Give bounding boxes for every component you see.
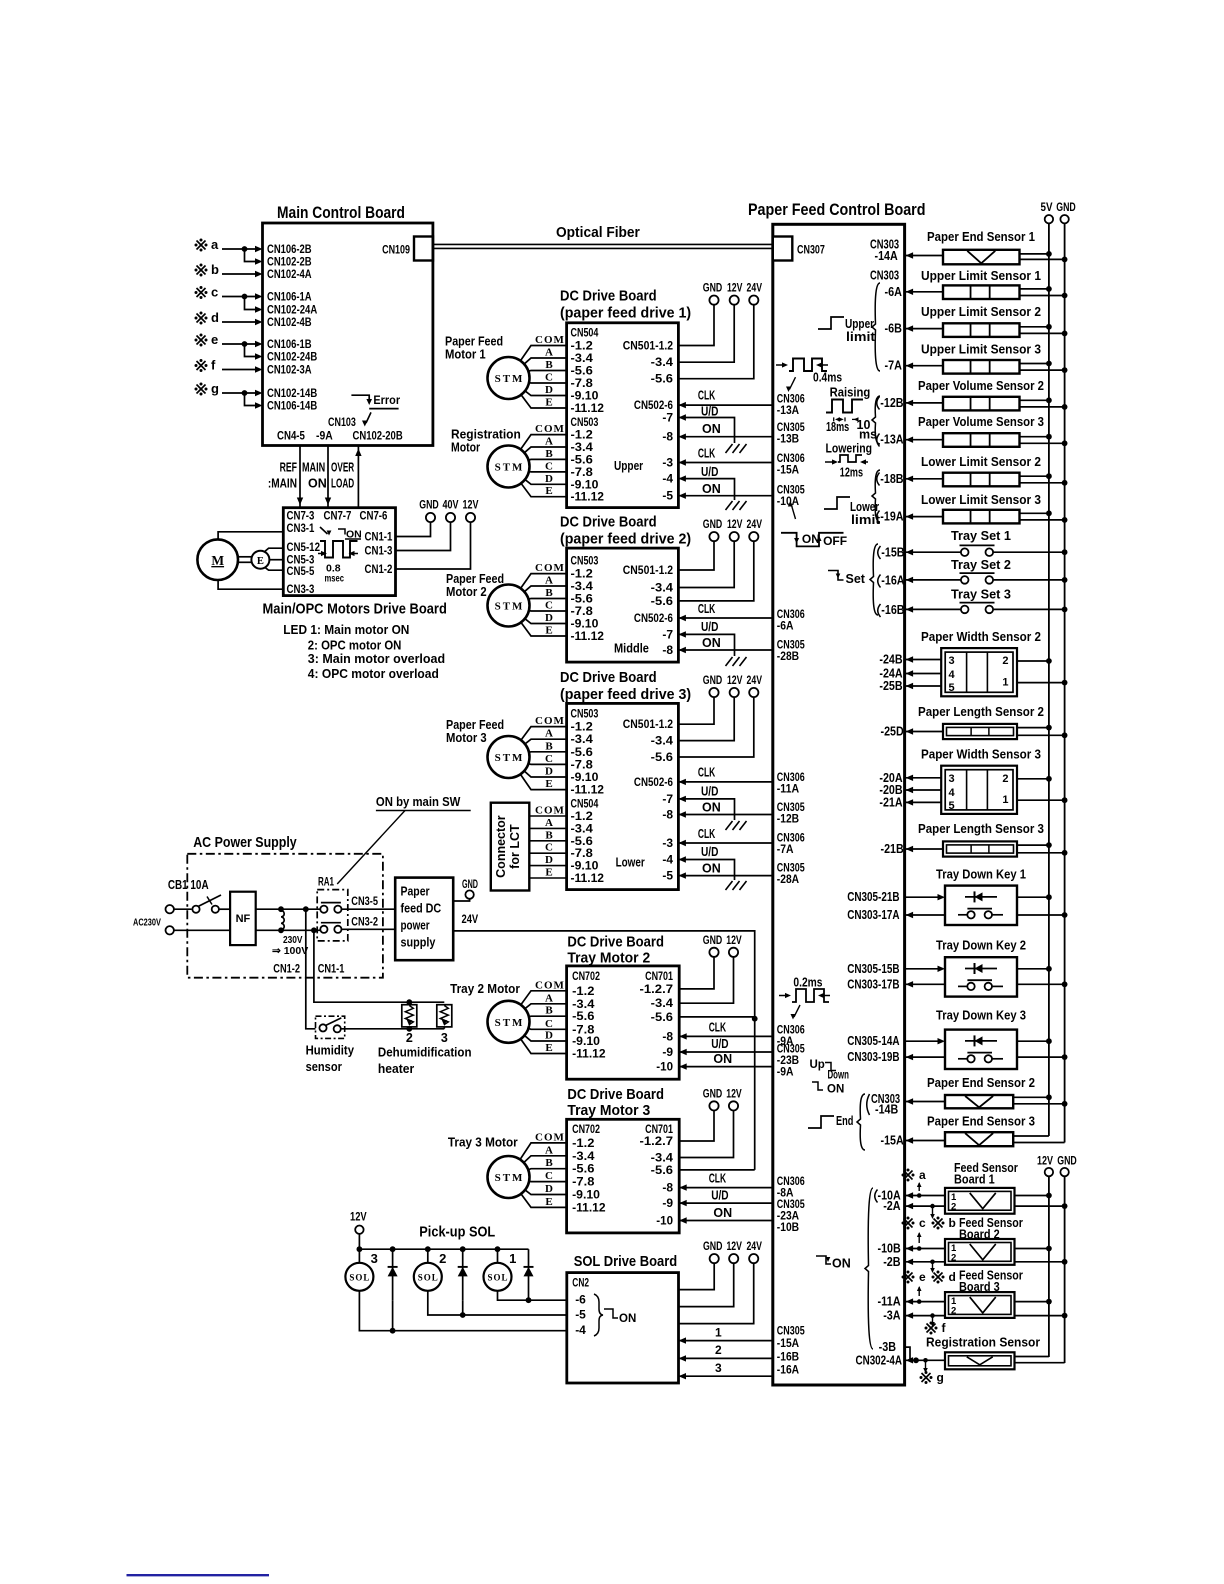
wire CN5-3 to E — [269, 559, 283, 561]
connector CN307 — [773, 237, 825, 261]
net label CN306 at y462 — [777, 451, 805, 465]
brace tray set group — [870, 544, 878, 615]
sensor registration sensor — [945, 1352, 1015, 1369]
svg-text:Pick-up SOL: Pick-up SOL — [419, 1224, 495, 1241]
svg-text:12V: 12V — [1037, 1155, 1053, 1167]
pin label -24A y677.5 — [879, 667, 902, 681]
svg-text:(paper feed drive 1): (paper feed drive 1) — [560, 305, 691, 322]
label paper feed motor 1 — [445, 335, 503, 362]
wire tdk1 in — [905, 894, 945, 900]
rail GND feed — [1064, 1176, 1066, 1363]
svg-text:M: M — [211, 553, 224, 568]
solenoid SOL2 — [414, 1249, 447, 1291]
svg-text:(paper feed drive 3): (paper feed drive 3) — [560, 686, 691, 703]
svg-text:12V: 12V — [350, 1210, 367, 1224]
label GND 40V 12V — [419, 500, 479, 512]
sensor paper end sensor 1 — [943, 250, 1020, 264]
wire tdk1 out — [906, 912, 945, 918]
pin label b3 CN503-1.2 — [571, 720, 594, 734]
diode D2 — [458, 1249, 468, 1300]
svg-text:C: C — [545, 460, 553, 472]
pin label -18B y482.8 — [880, 472, 903, 486]
pin label CN701-1.2.7 t3 — [640, 1134, 674, 1148]
wire REF:MAIN — [297, 446, 303, 508]
svg-text:D: D — [545, 766, 553, 778]
svg-text:-3.4: -3.4 — [572, 1149, 595, 1163]
svg-text:CN102-20B: CN102-20B — [353, 429, 403, 443]
wire b2 CN501-5.6 to 24V — [678, 541, 753, 601]
net label -7A at y852.9 — [777, 842, 794, 856]
pin label -24B y663.5 — [879, 653, 902, 667]
pin label -20B y794 — [879, 783, 902, 797]
switch tray set 3 — [960, 603, 995, 614]
wire STM4 fan — [509, 727, 567, 790]
wire CLK CN306-6A — [678, 602, 772, 621]
pin label -7A y369.7 — [885, 359, 902, 373]
connector for LCT label — [494, 815, 522, 878]
wire reg right — [1015, 1357, 1065, 1363]
svg-text:Main Control Board: Main Control Board — [277, 203, 405, 222]
pin label -25D y735.5 — [881, 725, 904, 739]
pin label b2 CN503-9.10 — [571, 617, 599, 631]
junction d1 bottom — [526, 1297, 532, 1303]
motor STM4 paper feed motor 3 — [488, 715, 565, 790]
sensor title tray down key 1 — [936, 868, 1026, 882]
svg-text:-3.4: -3.4 — [651, 581, 674, 595]
wire humidity to heater — [341, 1028, 445, 1030]
svg-text:Paper Volume Sensor 3: Paper Volume Sensor 3 — [918, 415, 1044, 429]
svg-text:STM: STM — [495, 1172, 525, 1184]
pin label t3 CN702-11.12 — [572, 1200, 606, 1214]
svg-text:Board 1: Board 1 — [954, 1173, 995, 1187]
wire fsb2 -2B — [906, 1259, 945, 1265]
pin label CN701-9 t3 — [662, 1196, 673, 1210]
svg-text:E: E — [257, 556, 264, 567]
pin label CN5-5 — [287, 564, 315, 578]
svg-text:-1.2.7: -1.2.7 — [640, 1134, 674, 1148]
svg-text:-6A: -6A — [885, 285, 902, 299]
svg-text:CN106-1A: CN106-1A — [267, 290, 312, 304]
svg-text:DC Drive Board: DC Drive Board — [560, 288, 657, 305]
wire sol1 bottom — [498, 1291, 567, 1300]
svg-text:SOL: SOL — [487, 1272, 508, 1282]
wire heater2 bottom — [406, 1026, 412, 1032]
pin label CN504-1.2 — [571, 339, 594, 353]
sensor title paper length sensor 3 — [918, 822, 1044, 836]
svg-text:CN303-17A: CN303-17A — [847, 908, 899, 922]
pin label b3 CN503-9.10 — [571, 770, 599, 784]
pin label CN103-9A — [316, 429, 333, 443]
svg-text:d: d — [949, 1270, 956, 1284]
wire uls1 left — [906, 289, 943, 295]
junction sol3 top — [357, 1246, 363, 1252]
svg-text:ON: ON — [702, 482, 721, 496]
pin label CN701-3.4 t3 — [651, 1151, 674, 1165]
switch tray set 2 — [960, 573, 995, 584]
wire sol2 bottom — [428, 1291, 567, 1315]
svg-text:heater: heater — [378, 1061, 414, 1076]
wire CN5-5 to E — [263, 566, 283, 570]
label 12V sol — [350, 1210, 367, 1224]
svg-text:-9A: -9A — [777, 1064, 794, 1078]
pin label t2 CN702-3.4 — [572, 997, 595, 1011]
svg-text:GND: GND — [703, 519, 723, 531]
sensor lower limit sensor 2 — [943, 473, 1020, 487]
pin label -19A y520.6 — [880, 510, 903, 524]
svg-text:COM: COM — [535, 715, 565, 727]
svg-text:-8: -8 — [662, 1029, 673, 1043]
sensor title tray set 2 — [951, 558, 1011, 572]
svg-text:Tray Motor 3: Tray Motor 3 — [567, 1102, 650, 1119]
wire ON t2 — [679, 1052, 773, 1070]
terminal AC line — [166, 905, 174, 913]
svg-text:1: 1 — [1002, 677, 1008, 689]
wire STM2 fan — [509, 435, 567, 497]
svg-text:-18B: -18B — [880, 472, 903, 486]
wire sol 12V bus — [359, 1234, 528, 1249]
wire pws2 pin4 — [906, 670, 942, 676]
svg-text:-11.12: -11.12 — [572, 1200, 606, 1214]
svg-text:OVER: OVER — [331, 461, 354, 475]
svg-text:Upper: Upper — [845, 317, 874, 331]
svg-text:GND: GND — [703, 1088, 723, 1100]
svg-text:-5.6: -5.6 — [651, 1010, 674, 1024]
junction CN1-1 tap — [311, 927, 317, 933]
svg-text:4: OPC motor overload: 4: OPC motor overload — [308, 666, 439, 681]
sensor title paper length sensor 2 — [918, 705, 1044, 719]
svg-text:D: D — [545, 612, 553, 624]
svg-text:12V: 12V — [727, 519, 743, 531]
ground b3b — [726, 881, 747, 890]
svg-text:COM: COM — [535, 334, 565, 346]
wire fsb1 -2A — [906, 1203, 945, 1209]
key tray down key 1 — [945, 886, 1017, 925]
dc drive board tray motor 2 title — [567, 934, 664, 967]
wire CN1-3 to 40V — [396, 522, 451, 550]
pin label CN303 y1102.8 — [871, 1092, 900, 1106]
waveform end — [808, 1114, 853, 1128]
svg-text:-5.6: -5.6 — [651, 1163, 674, 1177]
sensor title feed sensor board 1 — [954, 1161, 1018, 1187]
wire node c to pins — [222, 293, 263, 312]
svg-text:D: D — [545, 854, 553, 866]
wire uls3 right — [1020, 361, 1068, 373]
svg-text:-5.6: -5.6 — [651, 372, 674, 386]
svg-text:SOL: SOL — [349, 1272, 370, 1282]
net label -9A at y1044.9 — [777, 1034, 794, 1048]
pin label CN103 — [328, 415, 356, 429]
wire fsb2 right — [1015, 1246, 1068, 1265]
net label -23B at y1063.9 — [777, 1053, 800, 1067]
pin label -2B y1265.8 — [883, 1255, 900, 1269]
wire U/D CN305-23A — [679, 1188, 773, 1206]
wire STM5 fan — [509, 991, 567, 1054]
svg-text:ON: ON — [832, 1257, 851, 1271]
svg-text:CN307: CN307 — [797, 243, 825, 257]
svg-text:U/D: U/D — [711, 1188, 728, 1202]
svg-text:CN502-6: CN502-6 — [634, 775, 673, 789]
pin label CN303 y248.4 — [870, 237, 899, 251]
wire tdk2 in — [905, 966, 945, 972]
svg-text:B: B — [545, 740, 553, 752]
svg-text:CN503: CN503 — [571, 707, 599, 721]
svg-text:24V: 24V — [462, 912, 479, 926]
sensor title lower limit sensor 3 — [921, 493, 1041, 507]
pin label -13A y443.7 — [880, 433, 903, 447]
sensor feed sensor board 3 — [945, 1292, 1015, 1318]
svg-text::MAIN: :MAIN — [268, 477, 297, 491]
terminals GND 12V 24V board2 — [703, 519, 763, 541]
brace CN2 pins — [594, 1294, 603, 1336]
svg-text:E: E — [545, 397, 552, 409]
svg-text:A: A — [545, 728, 553, 740]
pin label -2A y1210.1 — [883, 1199, 900, 1213]
sensor title upper limit sensor 3 — [921, 343, 1041, 357]
wire pws2 pin1 right — [1017, 680, 1068, 686]
pin label b2 CN503-1.2 — [571, 567, 594, 581]
svg-text:D: D — [545, 473, 553, 485]
paren -15B — [878, 546, 881, 559]
wire pvs3 right — [1020, 434, 1068, 446]
pin label CN702 t3 — [572, 1122, 600, 1136]
wire tdk3 out — [906, 1054, 945, 1060]
wire b2 CN501-3.4 to 12V — [678, 541, 734, 587]
wire pws3 pin2 right — [1017, 776, 1052, 782]
pin label CN503-5.6 — [571, 452, 594, 466]
wire tdk3 in — [905, 1038, 945, 1044]
sensor paper end sensor 3 — [945, 1132, 1013, 1146]
svg-text:CN502-6: CN502-6 — [634, 611, 673, 625]
net label -15A at y473.4 — [777, 462, 800, 476]
diode D1 — [524, 1249, 534, 1300]
svg-text:-13A: -13A — [777, 403, 800, 417]
svg-text:A: A — [545, 436, 553, 448]
svg-text:-16B: -16B — [777, 1349, 800, 1363]
wire pls2 right — [1017, 725, 1068, 739]
wire AC neutral to NF — [174, 929, 230, 931]
svg-text:Upper Limit Sensor 3: Upper Limit Sensor 3 — [921, 343, 1041, 357]
humidity sensor contacts — [319, 1018, 341, 1033]
net label -23A at y1219.4 — [777, 1208, 800, 1222]
svg-text:Motor: Motor — [451, 441, 480, 455]
sensor paper width sensor 3 — [941, 766, 1017, 814]
wire ts1 left — [906, 549, 961, 555]
pin label b2 CN503-7.8 — [571, 604, 594, 618]
label Lower — [616, 856, 645, 870]
svg-text:-3.4: -3.4 — [651, 355, 674, 369]
svg-text:Registration Sensor: Registration Sensor — [926, 1335, 1040, 1349]
paren -16B — [878, 604, 881, 617]
svg-text:CN102-3A: CN102-3A — [267, 363, 312, 377]
wire t2 CN701-1.2.7 to GND — [679, 957, 714, 989]
junction d2 top — [460, 1246, 466, 1252]
svg-text:12V: 12V — [463, 500, 479, 512]
switch tray set 1 — [960, 545, 995, 556]
wire t2 CN701-5.6 to 24V — [679, 1017, 755, 1019]
svg-text:LED 1: Main motor ON: LED 1: Main motor ON — [283, 622, 409, 637]
sensor title paper width sensor 2 — [921, 630, 1041, 644]
motor STM3 paper feed motor 2 — [488, 562, 565, 636]
svg-text:GND: GND — [703, 1241, 723, 1253]
svg-text:e: e — [919, 1270, 926, 1284]
pin label -21B y853 — [881, 842, 904, 856]
svg-text:-11.12: -11.12 — [571, 401, 605, 415]
svg-text:CN102-24B: CN102-24B — [267, 350, 317, 364]
wire b3 CN501-1.2 to GND — [678, 697, 714, 724]
svg-text:CN3-5: CN3-5 — [351, 896, 378, 908]
wire lls3 right — [1020, 510, 1068, 522]
pin label CN701-9 t2 — [662, 1045, 673, 1059]
pin label CN106-1A — [267, 290, 312, 304]
pin label CN501-5.6 b3 — [651, 750, 674, 764]
waveform on feed — [816, 1256, 851, 1271]
sensor title feed sensor board 2 — [959, 1216, 1023, 1241]
pin label b3 CN504-11.12 — [571, 871, 605, 885]
wire node b to pin — [222, 271, 263, 277]
net label CN305 at y871.5 — [777, 861, 805, 875]
pin label CN501-1.2 — [623, 339, 673, 353]
svg-text:CN7-7: CN7-7 — [324, 509, 352, 523]
svg-text:COM: COM — [535, 979, 565, 991]
pin label CN305-14A y1045.2 — [847, 1034, 899, 1048]
svg-text:CN303: CN303 — [870, 269, 899, 283]
svg-text:CN102-4A: CN102-4A — [267, 267, 312, 281]
svg-text:Paper Length Sensor 2: Paper Length Sensor 2 — [918, 705, 1044, 719]
net label CN306 at y781 — [777, 770, 805, 784]
svg-text:Paper End Sensor 3: Paper End Sensor 3 — [927, 1115, 1035, 1129]
svg-text:REF: REF — [280, 461, 298, 475]
label 24V — [462, 912, 479, 926]
junction d3 bottom — [390, 1300, 396, 1333]
wire OVERLOAD — [355, 446, 361, 508]
svg-text:-11.12: -11.12 — [571, 871, 605, 885]
terminal AC neutral — [166, 926, 174, 934]
pin label CN502-8 b3 — [662, 808, 673, 822]
wire pws2 pin3 — [906, 656, 942, 662]
pin label CN502-3 — [662, 456, 673, 470]
ground b2 — [726, 657, 747, 666]
pin label -10A y1199.5 — [878, 1189, 901, 1203]
wire ts2 right — [993, 577, 1067, 583]
arrow 0.2ms callout — [791, 1005, 801, 1020]
pin label CN102-4B — [267, 315, 312, 329]
pin label -15A y1144.5 — [881, 1134, 904, 1148]
svg-text:3: 3 — [949, 773, 955, 785]
brace raising group — [872, 396, 880, 444]
diode D3 — [388, 1249, 398, 1300]
svg-text:g: g — [211, 381, 219, 396]
sensor title upper limit sensor 1 — [921, 269, 1041, 283]
svg-text:C: C — [545, 1170, 553, 1182]
terminal 5V — [1045, 215, 1053, 223]
label paper feed motor 3 — [446, 718, 504, 745]
svg-text:-10A: -10A — [777, 494, 800, 508]
svg-text:Paper Feed: Paper Feed — [445, 335, 503, 349]
wire ts1 right — [993, 549, 1067, 555]
pin label CN502-7 b3 — [662, 792, 673, 806]
pin label CN501-3.4 b3 — [651, 734, 674, 748]
pin label CN701 t3 — [645, 1122, 673, 1136]
svg-text:Paper Width Sensor 2: Paper Width Sensor 2 — [921, 630, 1041, 644]
breaker CB1 — [192, 895, 221, 913]
svg-text:CN501-1.2: CN501-1.2 — [623, 717, 673, 731]
svg-text:STM: STM — [495, 1017, 525, 1029]
wire pls2 left — [906, 728, 943, 734]
svg-text:ON: ON — [702, 422, 721, 436]
label humidity sensor — [306, 1043, 355, 1075]
net label -10A at y504.9 — [777, 494, 800, 508]
pin label b3 CN504-3.4 — [571, 821, 594, 835]
wire node a to pins — [222, 246, 263, 265]
sensor title feed sensor board 3 — [959, 1269, 1023, 1294]
svg-text:CN106-14B: CN106-14B — [267, 399, 317, 413]
svg-text:-10: -10 — [656, 1060, 673, 1074]
svg-text:CN501-1.2: CN501-1.2 — [623, 563, 673, 577]
svg-text:E: E — [545, 625, 552, 637]
label REF :MAIN — [268, 461, 297, 491]
wire uls3 left — [906, 363, 943, 369]
svg-text:DC Drive Board: DC Drive Board — [560, 669, 657, 686]
svg-text:E: E — [545, 1196, 552, 1208]
svg-text:limit: limit — [846, 330, 876, 344]
pin label CN701-5.6 t2 — [651, 1010, 674, 1024]
svg-text:2: 2 — [406, 1031, 413, 1045]
pin label CN504 b3 — [571, 797, 599, 811]
wire NF to RA1 bottom — [256, 929, 321, 931]
svg-text:-21A: -21A — [879, 795, 902, 809]
node a reference mark — [195, 237, 220, 252]
svg-text:Motor 1: Motor 1 — [445, 348, 486, 362]
svg-text:-8: -8 — [662, 430, 673, 444]
pin label CN502-7 b2 — [662, 627, 673, 641]
svg-text:Tray Set 1: Tray Set 1 — [951, 529, 1011, 543]
wire node e to pins — [222, 341, 263, 360]
pin label b3 CN503-5.6 — [571, 745, 594, 759]
svg-text:g: g — [937, 1371, 944, 1385]
svg-text:Paper Width Sensor 3: Paper Width Sensor 3 — [921, 748, 1041, 762]
svg-text:COM: COM — [535, 423, 565, 435]
pin label CN5-12 — [287, 540, 321, 554]
label Middle — [614, 641, 649, 655]
wire t3 CN701-1.2.7 to GND — [679, 1111, 714, 1142]
pin label CN701-10 t2 — [656, 1060, 673, 1074]
pin label b3 CN504-7.8 — [571, 846, 594, 860]
pin label -12B y406.9 — [880, 396, 903, 410]
net label -6A at y629.4 — [777, 618, 794, 632]
tach E — [251, 551, 269, 569]
wire U/D to ground b1b — [678, 465, 734, 500]
net label CN305 at y1208 — [777, 1197, 805, 1211]
svg-text:b: b — [211, 262, 219, 277]
pin label CN303-17A y919 — [847, 908, 899, 922]
wire node g to pins — [222, 390, 263, 409]
wire uls1 right — [1020, 286, 1068, 298]
wire ON CN305-12B — [678, 801, 772, 818]
svg-text:CN1-2: CN1-2 — [365, 562, 393, 576]
svg-text:-3B: -3B — [879, 1340, 896, 1354]
wire pvs3 left — [906, 437, 943, 443]
svg-text:-7: -7 — [662, 627, 673, 641]
wire pes1 right — [1020, 251, 1068, 262]
svg-text:ON: ON — [827, 1084, 844, 1096]
svg-text:-2B: -2B — [883, 1255, 900, 1269]
svg-text:-16A: -16A — [881, 574, 904, 588]
pin label CN501-1.2 b3 — [623, 717, 673, 731]
arrow lower limit callout — [788, 501, 796, 519]
wire t2 CN701-3.4 to 12V — [679, 957, 733, 1003]
pin label t2 CN702-11.12 — [572, 1047, 606, 1061]
svg-text:12V: 12V — [727, 283, 743, 295]
